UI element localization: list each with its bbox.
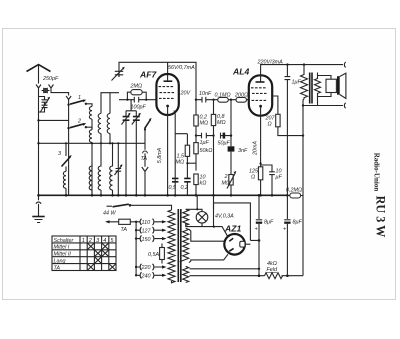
tap 220 — [136, 264, 163, 270]
node 3nF top — [230, 99, 232, 101]
svg-text:0,2: 0,2 — [181, 185, 189, 191]
svg-text:2MΩ: 2MΩ — [130, 84, 143, 90]
trimmer capacitor B — [126, 100, 136, 196]
switch mains 44W — [107, 205, 113, 207]
svg-text:+: + — [283, 227, 286, 233]
antenna — [27, 65, 51, 72]
svg-text:TA: TA — [141, 156, 148, 162]
transformer power secondary HV winding — [180, 228, 189, 262]
svg-text:Mittel II: Mittel II — [54, 252, 72, 258]
svg-text:5,8mA: 5,8mA — [157, 147, 163, 163]
wire AZ1 cathode out — [245, 240, 259, 244]
node switch2 pivot — [67, 127, 69, 129]
capacitor 10uF cathode — [261, 165, 275, 195]
capacitor tuning gang (variable) — [39, 97, 48, 113]
capacitor 1uF (series) — [202, 133, 207, 139]
capacitor 8uF no.2 — [284, 219, 290, 221]
svg-text:Lang: Lang — [54, 259, 66, 265]
capacitor 0,2uF — [186, 163, 188, 195]
ground symbol — [32, 216, 44, 218]
tap 127 — [136, 227, 163, 233]
svg-text:240: 240 — [141, 274, 151, 280]
svg-text:MΩ: MΩ — [217, 120, 226, 126]
wire AF7 anode top line y=62.3 — [119, 62, 196, 99]
scan page frame — [3, 29, 396, 300]
capacitor 0,5uF screen bypass — [172, 178, 178, 181]
wire lamp circuit top — [186, 195, 202, 211]
tap 110 — [136, 219, 163, 225]
svg-text:2: 2 — [88, 238, 92, 244]
trimmer capacitor grid — [115, 71, 123, 77]
connector antenna jack left — [36, 85, 41, 91]
wire jack to switch node — [51, 91, 69, 96]
wire lamp circuit bottom — [186, 195, 228, 236]
transformer output core — [310, 73, 312, 104]
coil L3 — [98, 114, 101, 134]
tube AL4 electrodes — [256, 81, 265, 83]
svg-text:50μF: 50μF — [218, 141, 231, 147]
transformer power core — [178, 209, 181, 282]
node 0,8M top — [212, 99, 214, 101]
wire screen divider link y=163.2 — [187, 162, 196, 164]
svg-text:Ω: Ω — [251, 175, 255, 181]
svg-text:MΩ: MΩ — [176, 160, 185, 166]
svg-text:8μF: 8μF — [293, 220, 303, 226]
capacitor 3nF — [228, 146, 235, 151]
node coupling x=196 — [195, 99, 197, 101]
svg-text:220: 220 — [141, 265, 151, 271]
switch TA — [145, 120, 151, 129]
terminal speaker bottom — [344, 103, 345, 108]
node screen junction — [302, 134, 304, 136]
svg-text:200Ω: 200Ω — [234, 93, 248, 99]
wire antenna lead-in x=38.5 — [38, 65, 40, 196]
node switch1 pivot — [67, 104, 69, 106]
switch 3 — [65, 143, 67, 156]
connector TA pickup box — [108, 221, 136, 223]
svg-text:Schalter: Schalter — [54, 238, 74, 244]
resistor 4kOhm field coil — [265, 273, 283, 279]
svg-text:250pF: 250pF — [42, 76, 59, 82]
coil L6 — [89, 164, 92, 196]
connector earth plug — [36, 195, 41, 216]
tube AF7 envelope — [156, 74, 178, 115]
svg-text:110: 110 — [142, 220, 151, 226]
svg-text:50kΩ: 50kΩ — [200, 148, 213, 154]
resistor 0,1MOhm — [218, 97, 229, 102]
wire contact2 to coil — [86, 127, 92, 130]
svg-text:3: 3 — [96, 238, 99, 244]
capacitor 1uF — [285, 65, 291, 196]
node x=196 y=135.6 — [195, 134, 197, 136]
terminal speaker top — [344, 62, 345, 67]
svg-text:MΩ: MΩ — [200, 121, 209, 127]
wire AF7 screen x=175.2 — [174, 111, 187, 196]
svg-text:8μF: 8μF — [264, 220, 274, 226]
wire antenna node horizontal y=120.4 — [39, 119, 69, 121]
svg-text:3nF: 3nF — [238, 148, 248, 154]
svg-text:0,2MΩ: 0,2MΩ — [286, 188, 302, 194]
coil L1 — [89, 107, 92, 120]
speaker — [318, 76, 332, 97]
wire heater line to AZ1 — [186, 267, 259, 269]
wire filter column 1 x=259 — [258, 195, 260, 275]
wire contact1 to coil — [86, 104, 92, 107]
fuse 0,5A — [160, 248, 165, 260]
resistor 0,8MOhm — [213, 100, 215, 196]
tap 240 — [136, 272, 163, 278]
svg-text:4V,0,3A: 4V,0,3A — [215, 214, 234, 220]
svg-text:MΩ: MΩ — [222, 181, 231, 187]
tube AZ1 cathode tab — [240, 241, 245, 247]
node dot — [37, 119, 39, 121]
svg-text:20mA: 20mA — [253, 141, 259, 156]
wire horizontal y=143.3 — [39, 142, 146, 144]
tube AZ1 envelope — [224, 234, 245, 255]
svg-text:3: 3 — [58, 151, 61, 157]
wire coil L1 bottom — [91, 119, 93, 129]
connector antenna jack right — [49, 85, 54, 91]
transformer output secondary — [315, 73, 321, 106]
resistor 125Ohm — [258, 167, 262, 180]
node cathode — [260, 162, 262, 164]
wire coil pair top bracket y=92.7 — [101, 93, 119, 114]
svg-text:μF: μF — [275, 175, 283, 181]
main ground bus — [39, 194, 288, 196]
wire filter column 2 x=287.4 — [286, 195, 288, 275]
wire AL4 cathode — [260, 106, 262, 195]
transformer power secondary lamp winding — [183, 209, 189, 225]
svg-text:20V: 20V — [180, 91, 192, 97]
wire B+ bottom line — [190, 275, 304, 277]
tap 150 — [136, 235, 163, 241]
resistor 207Ohm (screen) — [273, 96, 304, 136]
coil L2 — [89, 130, 92, 143]
resistor 1,5MOhm — [186, 134, 188, 164]
svg-text:2: 2 — [77, 119, 81, 125]
wire L3 bottom — [100, 134, 102, 144]
switch 1 — [70, 100, 85, 104]
potentiometer 2MOhm volume — [229, 175, 233, 186]
svg-text:44 W: 44 W — [103, 211, 116, 217]
svg-text:0,1MΩ: 0,1MΩ — [215, 93, 231, 99]
capacitor 10nF (series) — [202, 97, 206, 103]
coil L5 — [63, 172, 66, 189]
wire voltage selector column — [135, 222, 137, 275]
svg-text:1μF: 1μF — [200, 140, 210, 146]
wire 3nF branch x=231 — [230, 100, 232, 196]
wire speaker bottom y=105.5 — [303, 105, 343, 107]
capacitor 100pF (series) — [134, 97, 138, 103]
capacitor 8uF no.1 — [256, 219, 262, 221]
tube AZ1 anode plates — [229, 238, 233, 251]
svg-text:2: 2 — [224, 174, 228, 180]
wire B+ column x=303 — [303, 99, 304, 276]
svg-text:127: 127 — [142, 228, 152, 234]
coil L7 — [98, 143, 101, 195]
transformer power secondary heater winding — [183, 267, 189, 283]
coil L8 — [110, 143, 113, 195]
resistor 0,2MOhm (AF7 plate load) — [195, 100, 197, 136]
switch 2 — [70, 124, 85, 128]
svg-text:Radio-Union: Radio-Union — [373, 153, 381, 192]
svg-text:Feld: Feld — [267, 267, 278, 273]
coil L4 — [107, 114, 110, 134]
resistor 200Ohm — [236, 97, 247, 102]
capacitor C-ant 250pF — [42, 88, 50, 93]
transformer output primary — [301, 65, 308, 99]
resistor 50kOhm — [195, 136, 197, 171]
node bus dots — [65, 194, 68, 197]
trimmer capacitor A — [125, 111, 127, 196]
resistor 0,2MOhm (bleeder, in bus) — [287, 195, 303, 197]
svg-text:1μF: 1μF — [292, 80, 302, 86]
resistor 10kOhm — [195, 185, 197, 196]
wire grid line y=99.7 — [119, 99, 156, 101]
trimmer switch 4 — [116, 143, 122, 195]
node rail transformer — [303, 63, 305, 65]
svg-text:56V/0,7mA: 56V/0,7mA — [168, 65, 195, 71]
svg-text:150: 150 — [142, 237, 151, 243]
wire AZ1 anode feed 2 — [189, 254, 228, 262]
svg-text:Ω: Ω — [268, 122, 272, 128]
svg-text:1: 1 — [78, 95, 81, 101]
transformer power primary winding — [168, 210, 175, 283]
wire AF7 cathode x=167.6 — [167, 115, 169, 195]
svg-text:AL4: AL4 — [232, 67, 249, 77]
svg-text:TA: TA — [121, 227, 128, 233]
capacitor 50uF (series electrolytic) — [220, 133, 222, 139]
tube AL4 envelope — [249, 75, 272, 115]
wire AZ1 anode feed 1 — [189, 229, 224, 241]
svg-text:TA: TA — [54, 265, 61, 271]
wire L4 bottom — [109, 134, 111, 144]
wire AZ1 heater top loop — [214, 203, 251, 241]
svg-text:AZ1: AZ1 — [224, 224, 241, 234]
svg-text:100pF: 100pF — [131, 105, 147, 111]
wire y=135.6 filter line — [196, 135, 231, 137]
svg-text:RU 3 W: RU 3 W — [374, 196, 388, 238]
table switch positions — [52, 236, 116, 271]
svg-text:0,5A: 0,5A — [148, 252, 159, 258]
wire AL4 plate to top rail — [261, 65, 343, 82]
wire switch common x=68.6 — [68, 105, 70, 196]
connector TA jacks — [142, 130, 148, 196]
svg-text:1: 1 — [82, 238, 85, 244]
tube AF7 electrodes — [164, 80, 173, 82]
svg-text:AF7: AF7 — [139, 70, 157, 80]
svg-text:10nF: 10nF — [199, 91, 212, 97]
wire coil L2 bottom to bus — [91, 142, 93, 195]
svg-text:Mittel I: Mittel I — [54, 245, 70, 251]
node rail 1uF — [286, 63, 288, 65]
connector switch feed — [66, 96, 71, 105]
svg-text:kΩ: kΩ — [200, 181, 207, 187]
svg-text:4: 4 — [103, 238, 106, 244]
wire switch to transformer primary — [130, 205, 172, 210]
svg-text:+: + — [255, 227, 258, 233]
wire coupling line to AL4 — [196, 99, 250, 101]
resistor 2MOhm bridge — [127, 92, 146, 100]
lamp dial 4V 0,3A — [196, 212, 208, 224]
